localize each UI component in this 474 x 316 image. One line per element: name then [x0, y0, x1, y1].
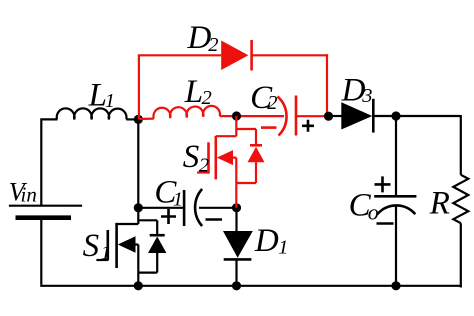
S1 body diode lead lower — [156, 253, 158, 273]
S1 body diode lead upper — [156, 220, 158, 235]
svg-text:S: S — [183, 139, 200, 175]
S1 body diode cathode bar — [150, 234, 165, 237]
S2 arrow (red) — [217, 150, 233, 165]
diode D1 cathode bar — [224, 258, 252, 261]
capacitor C2 curved plate (red) — [278, 97, 287, 136]
wire L1 to node A — [126, 118, 140, 120]
node H (D1 / rail) — [232, 281, 241, 290]
S2 loop bottom (red) — [236, 182, 256, 184]
wire S2 source to D1 (already via node F) / diode D1 anode lead — [235, 208, 237, 231]
diode D2 cathode bar — [250, 40, 253, 71]
wire D3 to output corner — [373, 115, 461, 117]
wire C1 left lead — [138, 207, 184, 209]
node D (Co tap) — [391, 111, 400, 120]
diode D3 cathode bar — [372, 99, 375, 133]
capacitor C1 straight plate — [183, 190, 186, 226]
node F (C1/S2/D1 junction) — [232, 203, 241, 212]
battery Vin bottom plate — [16, 215, 72, 220]
capacitor C1 curved plate — [195, 189, 202, 226]
node C (D2/C2/D3 junction) — [324, 112, 333, 121]
diode D1 cathode lead — [235, 259, 237, 287]
S2 gate foot (red) — [197, 171, 208, 173]
svg-text:D: D — [254, 223, 279, 259]
S2 source vertical (red) — [235, 158, 237, 208]
S1 gate foot — [96, 259, 107, 261]
capacitor C2 straight plate (red) — [295, 96, 298, 136]
Co minus sign — [377, 222, 394, 225]
node A (L1 junction) — [134, 115, 143, 124]
wire Co branch upper — [395, 116, 397, 196]
wire D2 top right (red) — [252, 54, 329, 56]
transistor S2 drain vertical (red) — [235, 116, 237, 136]
S2 body diode lead upper (red) — [255, 129, 257, 145]
S2 body diode cathode bar (red) — [250, 144, 262, 147]
wire Co branch lower — [395, 205, 397, 287]
wire L2 to C2 (red) — [220, 115, 284, 117]
svg-text:2: 2 — [267, 92, 277, 114]
battery Vin top plate — [9, 205, 82, 207]
S1 arrow — [118, 236, 136, 252]
wire D2 riser (red, up from node A) — [138, 55, 140, 119]
bottom rail — [40, 285, 462, 287]
S1 channel — [115, 223, 118, 268]
svg-text:2: 2 — [208, 34, 218, 56]
wire D2 drop (red, down to C2 output node) — [326, 54, 328, 116]
wire node A to L2 (red) — [138, 117, 154, 120]
resistor R zigzag — [453, 175, 468, 223]
S2 body-diode tap (red) — [236, 128, 256, 130]
C1 plus sign — [161, 209, 176, 224]
transistor S1 drain vertical — [137, 208, 139, 224]
svg-text:in: in — [21, 183, 37, 207]
diode D3 triangle — [341, 102, 372, 129]
diode D1 triangle — [223, 231, 253, 258]
S1 drain lead — [117, 223, 139, 225]
S1 gate bar — [107, 230, 110, 261]
svg-text:o: o — [368, 199, 379, 224]
svg-text:R: R — [429, 185, 450, 221]
svg-text:3: 3 — [361, 85, 372, 107]
wire C2 to node C (red) — [296, 115, 328, 117]
svg-text:1: 1 — [173, 188, 183, 210]
S2 drain lead (red) — [216, 135, 237, 137]
capacitor Co top plate — [374, 195, 416, 198]
capacitor Co curved plate — [377, 205, 415, 214]
svg-text:1: 1 — [101, 242, 111, 264]
node G (S1 source / rail) — [134, 281, 143, 290]
diode D2 triangle — [221, 41, 248, 71]
wire node A down to S1 drain node — [137, 119, 139, 207]
S1 arrow stub — [135, 243, 139, 245]
C2 minus sign (red) — [261, 126, 277, 129]
wire output top to R — [460, 115, 462, 175]
svg-text:1: 1 — [105, 90, 115, 112]
wire left vertical top (Vin + to L1) — [40, 121, 42, 206]
wire node C to D3 — [329, 115, 343, 117]
svg-text:2: 2 — [199, 155, 209, 177]
wire D2 top left (red) — [138, 54, 221, 56]
S2 channel (red) — [215, 136, 218, 180]
S2 body diode triangle (red) — [248, 147, 265, 163]
S2 body diode lead lower (red) — [255, 162, 257, 183]
wire C1 right lead — [199, 207, 237, 209]
S1 source vertical — [137, 245, 139, 287]
S2 gate bar (red) — [207, 142, 210, 173]
svg-text:1: 1 — [278, 236, 288, 258]
svg-text:2: 2 — [202, 87, 212, 109]
S1 loop bottom — [138, 272, 157, 274]
S1 body-diode tap — [138, 219, 157, 221]
wire R to bottom rail — [460, 223, 462, 287]
node I (Co / rail) — [391, 281, 400, 290]
inductor L1 — [57, 108, 127, 119]
C2 plus sign — [302, 120, 314, 132]
inductor L2 (red) — [153, 106, 220, 119]
node E (S1/C1 junction) — [134, 203, 143, 212]
svg-text:S: S — [83, 228, 100, 264]
node B (S2 drain tap) — [232, 111, 241, 120]
wire top-left to L1 — [40, 118, 57, 120]
C1 minus sign — [206, 218, 223, 221]
svg-text:L: L — [184, 74, 203, 110]
S1 body diode triangle — [148, 237, 166, 254]
wire left vertical bottom — [40, 218, 42, 285]
S2 arrow stub (red) — [232, 157, 236, 159]
Co plus sign — [375, 176, 391, 192]
